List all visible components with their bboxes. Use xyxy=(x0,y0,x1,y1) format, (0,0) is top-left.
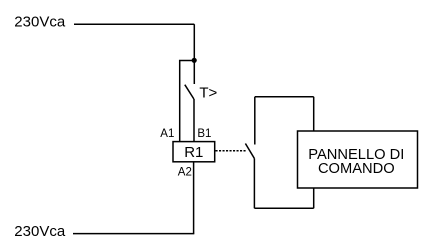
svg-text:A1: A1 xyxy=(160,128,174,140)
panel box PANNELLO DI COMANDO xyxy=(298,131,418,188)
wire node A branch to A1 xyxy=(180,61,195,142)
relay coil R1 box xyxy=(173,142,215,162)
wire loop right lower (from panel) xyxy=(313,188,315,208)
wire node A to switch T> xyxy=(193,61,195,85)
wire A2 to bottom rail xyxy=(193,162,195,234)
mechanical link R1 to contact (dashed) xyxy=(216,150,248,152)
wire bottom rail xyxy=(73,233,194,235)
node A junction dot xyxy=(192,58,197,63)
wire loop right upper (to panel) xyxy=(313,97,315,131)
wire loop bottom xyxy=(254,207,313,209)
svg-text:COMANDO: COMANDO xyxy=(318,161,395,177)
wire switch T> to B1 xyxy=(193,99,195,142)
svg-text:230Vca: 230Vca xyxy=(14,223,66,240)
svg-text:B1: B1 xyxy=(197,128,211,140)
wire loop left upper (to contact) xyxy=(254,97,256,145)
contact R1 (NO) blade xyxy=(245,144,254,159)
svg-text:230Vca: 230Vca xyxy=(14,13,66,30)
wire contact to loop bottom xyxy=(253,159,255,209)
wire top rail xyxy=(74,23,194,25)
wire loop top xyxy=(255,96,314,98)
svg-text:R1: R1 xyxy=(184,144,203,161)
thermal switch T> blade xyxy=(185,85,194,99)
svg-text:A2: A2 xyxy=(178,166,192,178)
wire top rail drop to node A xyxy=(193,24,195,60)
svg-text:T>: T> xyxy=(199,85,217,102)
